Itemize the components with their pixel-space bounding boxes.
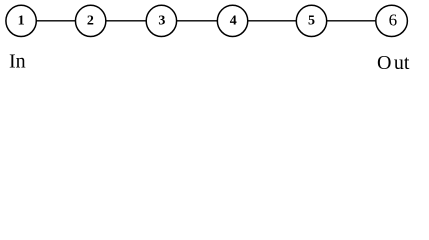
svg-text:2: 2 [87, 14, 94, 29]
svg-text:3: 3 [158, 14, 165, 29]
svg-text:In: In [9, 51, 26, 73]
svg-text:1: 1 [18, 14, 25, 29]
svg-text:Out: Out [377, 52, 410, 74]
svg-text:5: 5 [308, 14, 315, 29]
svg-text:6: 6 [389, 11, 398, 30]
svg-text:4: 4 [230, 14, 237, 29]
